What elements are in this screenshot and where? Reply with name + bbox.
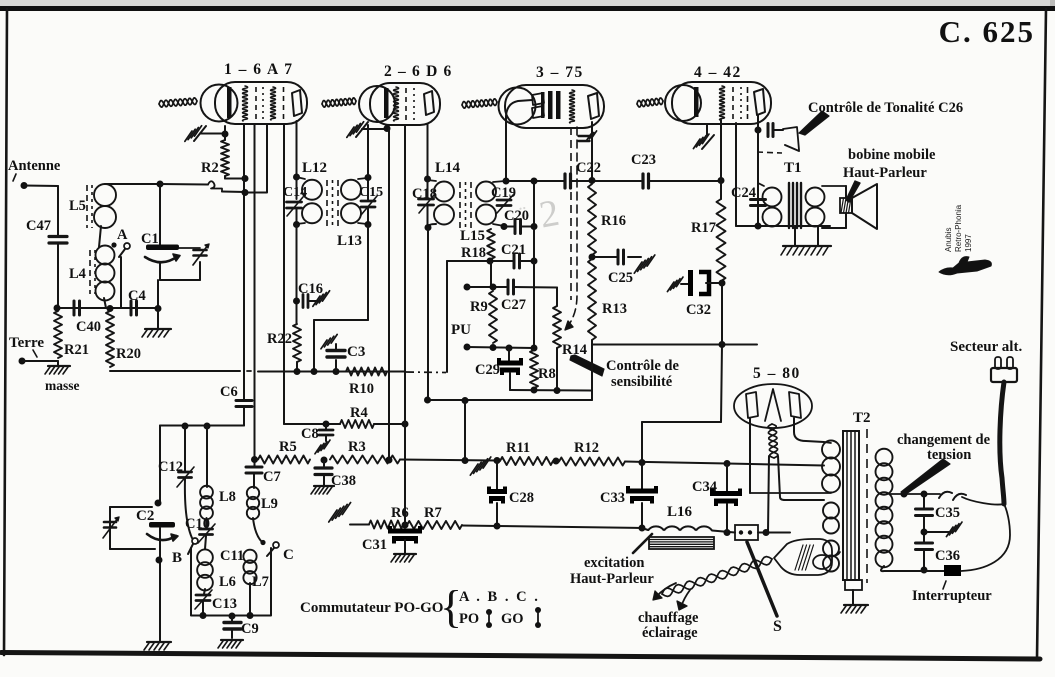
wire filter rect top	[642, 421, 721, 423]
label L9	[261, 496, 278, 512]
tube V2 grid dashes	[406, 88, 414, 120]
ground C31	[391, 554, 416, 562]
label C6	[220, 384, 238, 400]
resistor R22	[293, 324, 301, 362]
node L7 bottom	[247, 612, 254, 619]
svg-text:R22: R22	[267, 331, 292, 347]
coil L13	[341, 178, 367, 224]
wire C6 to rail425	[160, 407, 244, 426]
border frame bottom	[1, 653, 1040, 660]
svg-text:Haut-Parleur: Haut-Parleur	[570, 571, 654, 587]
node C36 bottom	[921, 567, 928, 574]
transformer T1 secondary	[806, 188, 825, 227]
if transformer core dashes	[327, 180, 338, 226]
svg-text:R12: R12	[574, 440, 599, 456]
label C34	[692, 479, 717, 495]
label C9	[241, 621, 259, 637]
wire rail to T2	[727, 464, 824, 466]
capacitor C12	[177, 467, 194, 487]
interrupteur switch	[944, 565, 961, 576]
rectifier plate right	[789, 392, 801, 418]
svg-text:C34: C34	[692, 479, 717, 495]
wire V4 plate to C24	[757, 130, 759, 226]
ground R6 left	[329, 503, 369, 525]
node heater x766	[763, 529, 770, 536]
tube V1 grid dash 2	[283, 87, 285, 120]
svg-text:sensibilité: sensibilité	[611, 374, 673, 390]
tube V3 label 3-75	[536, 64, 584, 81]
label B	[172, 550, 182, 566]
svg-text:C40: C40	[76, 319, 101, 335]
node V2 cathode	[384, 125, 391, 132]
tube V3 diode plate 2	[532, 105, 545, 118]
svg-text:R11: R11	[506, 440, 530, 456]
wire S to lamp node	[758, 532, 790, 534]
arrow controle sensibilite	[570, 355, 604, 376]
border frame right	[1037, 9, 1046, 658]
wire osc bottom rail	[191, 615, 271, 617]
node rail181 x592	[589, 177, 596, 184]
capacitor C20	[515, 220, 521, 234]
ground C32	[667, 277, 683, 292]
label C1	[141, 231, 159, 247]
ground masse	[45, 361, 70, 374]
node L13 at rail	[311, 368, 318, 375]
svg-text:C27: C27	[501, 297, 526, 313]
wire V3 diode out	[506, 100, 532, 181]
label C33	[600, 490, 625, 506]
node C34 top	[724, 460, 731, 467]
svg-text:Contrôle de: Contrôle de	[606, 358, 679, 374]
wire C25 row	[592, 256, 641, 258]
label L5	[69, 198, 86, 214]
node C28 top	[494, 457, 501, 464]
node tone tap	[755, 127, 762, 134]
svg-text:R21: R21	[64, 342, 89, 358]
node C29 top	[506, 345, 513, 352]
svg-text:C28: C28	[509, 490, 534, 506]
tube V1 grid wavy	[243, 86, 248, 121]
wire V1 pin a	[243, 125, 245, 399]
node C8	[323, 421, 330, 428]
label R11	[506, 440, 530, 456]
coil L5	[94, 184, 160, 228]
arrow bobine	[846, 181, 860, 202]
coil L12	[297, 177, 323, 224]
wire rail to jog	[160, 183, 208, 186]
svg-text:T1: T1	[784, 160, 802, 176]
label R10	[349, 381, 374, 397]
node x465 rail	[462, 457, 469, 464]
label L7	[252, 574, 269, 590]
rectifier heater twist	[768, 424, 778, 458]
switch A	[111, 242, 130, 308]
svg-text:R16: R16	[601, 213, 626, 229]
wire C34 line	[726, 464, 728, 533]
arrow chauffage 2	[677, 590, 690, 610]
wire heater a down	[768, 456, 769, 532]
wire L16 to S	[712, 531, 735, 533]
label C3	[347, 344, 365, 360]
ground C8	[315, 440, 330, 454]
label R2	[201, 160, 219, 176]
wire x722 down	[721, 283, 722, 422]
tube V1 heater pigtail	[159, 98, 197, 107]
shield hatch R11 left	[470, 457, 491, 475]
node antenna rail junction	[157, 181, 164, 188]
resistor R21	[54, 311, 62, 358]
resistor R8	[530, 350, 538, 388]
capacitor C8	[319, 424, 333, 441]
speaker voice coil	[840, 198, 852, 213]
tube V4 plate	[754, 89, 765, 115]
wire bus y371 dashdot	[406, 371, 446, 374]
wire T2 sec bottom	[881, 566, 944, 571]
wire C14	[296, 177, 298, 225]
capacitor C2 stator	[149, 522, 175, 528]
label C38	[331, 473, 356, 489]
svg-text:C18: C18	[412, 186, 437, 202]
svg-text:éclairage: éclairage	[642, 625, 698, 641]
wire y390	[510, 389, 592, 392]
wire C1 bottom	[160, 262, 200, 280]
node C12 top	[182, 423, 189, 430]
wire rail526 to C33	[497, 526, 642, 528]
resistor R13	[588, 259, 596, 340]
wire V4 screen down	[735, 123, 737, 226]
svg-text:C6: C6	[220, 384, 238, 400]
node L13 top	[365, 174, 372, 181]
ground C16	[313, 291, 330, 307]
node rail181 x534	[531, 178, 538, 185]
label C32	[686, 302, 711, 318]
tube V3 heater pigtail	[462, 99, 497, 108]
svg-text:L6: L6	[219, 574, 236, 590]
wire C47 to rail	[57, 243, 59, 308]
if2 core dashes	[460, 182, 471, 228]
tube V2 plate	[424, 91, 434, 115]
capacitor C32	[681, 270, 722, 296]
label R22	[267, 331, 292, 347]
label R6	[391, 505, 409, 521]
label S	[773, 618, 782, 635]
coil L7	[243, 550, 256, 585]
node x557 y390	[554, 387, 561, 394]
transformer T2 core base	[845, 580, 862, 604]
svg-text:PU: PU	[451, 322, 471, 338]
ground below C2	[144, 642, 171, 650]
coil L16	[648, 526, 712, 530]
svg-text:changement de: changement de	[897, 432, 991, 448]
capacitor C29	[497, 348, 523, 390]
node R9 bottom	[490, 344, 497, 351]
anubis text	[944, 204, 973, 252]
capacitor C23	[643, 174, 649, 188]
svg-text:Anubis: Anubis	[944, 228, 953, 252]
svg-text:C10: C10	[185, 516, 210, 532]
label R12	[574, 440, 599, 456]
wire L6 to C13	[204, 589, 205, 594]
ground below C4	[142, 308, 171, 337]
node C2 top	[155, 500, 162, 507]
switch S box	[735, 525, 758, 540]
label Terre	[9, 335, 44, 357]
capacitor C3	[327, 351, 345, 358]
ground C38	[311, 486, 334, 494]
svg-text:C47: C47	[26, 218, 51, 234]
capacitor C27	[508, 280, 514, 294]
wire C35 C36	[923, 516, 925, 543]
transformer T1 core	[789, 183, 801, 228]
border frame top	[0, 6, 1055, 11]
wire detector line x534	[533, 181, 535, 348]
wire plate left to T2	[750, 492, 831, 494]
label R7	[424, 505, 442, 521]
wire V4 grid down	[720, 120, 722, 181]
label C12	[158, 459, 183, 475]
capacitor C9	[224, 616, 241, 638]
svg-text:C7: C7	[263, 469, 281, 485]
wire C16 right	[308, 300, 319, 302]
node x245 y178	[242, 175, 249, 182]
border frame left	[4, 9, 7, 655]
wire rect plate right down	[794, 418, 824, 442]
coil L14	[428, 180, 455, 227]
wire C33 line	[641, 463, 643, 529]
wire left column down	[159, 426, 161, 503]
svg-text:R7: R7	[424, 505, 442, 521]
node C40 left	[54, 305, 61, 312]
tube V2 label 2-6D6	[384, 63, 453, 80]
title C. 625	[939, 14, 1035, 49]
node T1 rail x758	[755, 223, 762, 230]
wire C15	[367, 177, 369, 225]
svg-text:R13: R13	[602, 301, 627, 317]
capacitor C10	[198, 524, 215, 543]
node R8 top	[531, 345, 538, 352]
wire T1 bottom rail	[736, 225, 830, 227]
wire C3 stem	[335, 344, 337, 371]
label C35	[935, 505, 960, 521]
label T2	[853, 410, 871, 426]
svg-text:C3: C3	[347, 344, 365, 360]
label chauffage	[638, 610, 699, 626]
wire C13 down	[202, 601, 204, 615]
capacitor C28	[487, 487, 507, 504]
wire mid to ground	[924, 531, 952, 533]
svg-text:R2: R2	[201, 160, 219, 176]
svg-text:5 – 80: 5 – 80	[753, 365, 801, 382]
node bus x465	[462, 397, 469, 404]
ground at V1	[185, 126, 223, 142]
capacitor C21	[514, 254, 520, 268]
svg-text:L5: L5	[69, 198, 86, 214]
wire V1 pin b	[254, 125, 256, 459]
label tension	[927, 447, 971, 463]
heater twisted pair	[662, 557, 772, 597]
svg-text:C35: C35	[935, 505, 960, 521]
wire C26 to switch	[774, 129, 784, 131]
wire V2 plate down x427	[427, 124, 429, 177]
svg-text:Contrôle de Tonalité C26: Contrôle de Tonalité C26	[808, 100, 963, 116]
ground C35 mid	[946, 522, 962, 537]
resistor R10	[346, 368, 387, 376]
tube V2 cathode bar	[384, 88, 389, 118]
tube V1 label 1-6A7	[224, 61, 293, 78]
svg-text:R8: R8	[538, 366, 556, 382]
arrow changement	[901, 459, 950, 494]
wire C common	[270, 548, 272, 615]
wire lamp to T2 heater	[832, 552, 840, 556]
tube V1 grid dashes	[256, 87, 263, 120]
tube V3 diode plate 1	[532, 92, 545, 105]
capacitor C38	[315, 460, 332, 485]
svg-text:C25: C25	[608, 270, 633, 286]
rectifier plate left	[746, 392, 758, 418]
T2 secondary	[876, 449, 893, 568]
node L4 bottom	[107, 305, 114, 312]
resistor R14	[553, 306, 561, 348]
wire C1 to ground rail	[157, 280, 159, 308]
label C40	[76, 319, 101, 335]
label eclairage	[642, 625, 698, 641]
capacitor C4	[131, 301, 137, 315]
wire C10 to L6	[205, 536, 206, 549]
label C36	[935, 548, 960, 564]
ground below C9	[218, 640, 243, 648]
svg-text:C: C	[283, 547, 294, 563]
label R4	[350, 405, 368, 421]
dial lamp	[774, 539, 832, 575]
label L4	[69, 266, 86, 282]
capacitor C34	[710, 489, 742, 507]
trimmer C2	[103, 517, 119, 538]
svg-text:C11: C11	[220, 548, 244, 564]
node R2 top	[222, 131, 229, 138]
capacitor C36	[916, 543, 933, 550]
label changement	[897, 432, 991, 448]
resistor R18	[487, 229, 495, 259]
mains plug	[991, 357, 1017, 382]
ground C25	[634, 255, 655, 273]
svg-text:C15: C15	[359, 185, 383, 200]
tube V2 grid wavy	[394, 87, 399, 121]
wire R14 bottom to y390	[556, 348, 558, 391]
label L12	[302, 160, 327, 176]
resistor R20	[106, 311, 114, 367]
node C2 bottom	[156, 557, 163, 564]
capacitor C18	[419, 194, 436, 213]
node selector b	[921, 491, 928, 498]
node C33 bottom	[639, 525, 646, 532]
svg-text:C13: C13	[212, 596, 237, 612]
node C28 bottom	[494, 523, 501, 530]
label excitation hp	[570, 571, 654, 587]
capacitor C31	[388, 526, 422, 544]
legend PO	[459, 611, 479, 627]
svg-text:C38: C38	[331, 473, 356, 489]
tube V3 envelope	[499, 85, 605, 128]
capacitor C13	[195, 590, 212, 609]
svg-text:C9: C9	[241, 621, 259, 637]
svg-text:C29: C29	[475, 362, 500, 378]
coil L4 core dashes	[90, 250, 95, 294]
trimmer on C1	[179, 244, 209, 265]
resistor R2	[221, 140, 229, 176]
svg-text:C14: C14	[283, 185, 307, 200]
label secteur alt	[950, 339, 1022, 355]
label C sw	[283, 547, 294, 563]
capacitor C26	[768, 124, 773, 137]
node switch C	[260, 540, 265, 545]
node rail181 x506	[503, 178, 510, 185]
svg-text:excitation: excitation	[584, 555, 644, 571]
node rail344 x722	[719, 341, 726, 348]
label C29	[475, 362, 500, 378]
wire C7 to L9	[253, 474, 255, 489]
label R16	[601, 213, 626, 229]
svg-text:S: S	[773, 618, 782, 635]
svg-text:C2: C2	[136, 508, 154, 524]
antenna terminal	[21, 182, 59, 189]
svg-text:C12: C12	[158, 459, 183, 475]
wire V2 pin down x405	[404, 125, 406, 525]
capacitor C40	[74, 301, 80, 315]
wire L9 to C switch	[253, 518, 262, 542]
svg-text:C. 625: C. 625	[939, 14, 1035, 49]
label C18	[412, 186, 437, 202]
transformer T2 core	[843, 431, 859, 580]
svg-text:Retro-Phonia: Retro-Phonia	[954, 204, 963, 252]
svg-text:L13: L13	[337, 233, 362, 249]
wire speaker frame	[822, 186, 846, 228]
label controle de	[606, 358, 679, 374]
ground at V2	[347, 122, 387, 138]
wire L8 to C10	[206, 518, 208, 528]
svg-text:R3: R3	[348, 439, 366, 455]
selector contacts	[939, 492, 966, 500]
svg-text:3 – 75: 3 – 75	[536, 64, 584, 81]
wire L16 row	[642, 528, 648, 530]
svg-text:A: A	[117, 227, 128, 243]
capacitor C7	[246, 467, 262, 473]
label C8	[301, 426, 319, 442]
wire AVC down	[446, 261, 448, 372]
wire C35 line	[923, 494, 925, 508]
label L8	[219, 489, 236, 505]
label C21	[501, 242, 526, 258]
node jog x245	[242, 189, 249, 196]
label bobine mobile	[848, 147, 936, 163]
resistor R7	[407, 521, 462, 529]
label T1	[784, 160, 802, 176]
svg-text:C23: C23	[631, 152, 656, 168]
wire bus y371 dash	[247, 370, 251, 372]
label C7	[263, 469, 281, 485]
wire R17 top	[720, 181, 722, 199]
svg-text:Haut-Parleur: Haut-Parleur	[843, 165, 927, 181]
tube V4 envelope	[665, 82, 771, 124]
svg-text:4 – 42: 4 – 42	[694, 64, 742, 81]
grid capacitor on dash line	[579, 131, 597, 141]
svg-text:L12: L12	[302, 160, 327, 176]
tube V1 cathode bar	[227, 87, 232, 118]
core bar L16	[649, 537, 714, 549]
capacitor C47	[49, 237, 67, 244]
capacitor C14	[283, 185, 307, 216]
wire jog to V1 grid	[245, 192, 267, 194]
node C3 rail	[333, 368, 340, 375]
